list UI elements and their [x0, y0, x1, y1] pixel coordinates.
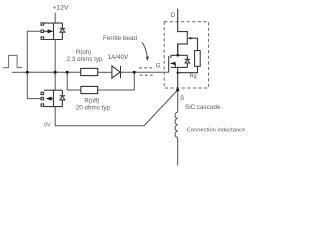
- svg-text:20 ohms typ: 20 ohms typ: [76, 104, 111, 111]
- svg-text:D: D: [171, 12, 176, 19]
- svg-text:Rg: Rg: [190, 74, 197, 80]
- svg-text:Connection inductance: Connection inductance: [187, 128, 246, 134]
- svg-text:2.3 ohms typ: 2.3 ohms typ: [67, 56, 104, 63]
- svg-text:S: S: [180, 95, 184, 102]
- svg-text:0V: 0V: [44, 123, 51, 129]
- svg-text:G: G: [156, 63, 161, 70]
- svg-text:SiC cascode: SiC cascode: [185, 104, 221, 111]
- svg-text:R(off): R(off): [84, 98, 99, 104]
- svg-text:Ferrite bead: Ferrite bead: [103, 35, 137, 42]
- svg-text:1A/40V: 1A/40V: [108, 54, 129, 61]
- svg-text:+12V: +12V: [53, 5, 70, 12]
